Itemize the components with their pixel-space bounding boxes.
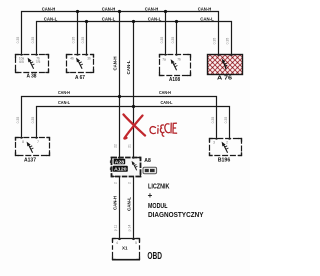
junction A108 pin2 / CAN-L [175,20,178,23]
svg-text:3: 3 [213,141,215,145]
annotation text LICZNIK + MODUL DIAGNOSTYCZNY [148,181,204,218]
svg-text:0.35: 0.35 [226,38,230,45]
tab marks on cluster left side [110,161,112,164]
svg-text:A137: A137 [24,158,36,164]
svg-text:X1: X1 [122,246,128,251]
svg-text:A8: A8 [144,158,151,164]
connector X1 (OBD socket) [112,238,140,259]
svg-text:7a: 7a [162,58,166,62]
svg-text:A 76: A 76 [217,76,232,82]
wire CAN-H mid bus [22,97,217,139]
svg-text:4: 4 [116,241,118,245]
svg-text:CAN-H: CAN-H [198,7,212,13]
svg-text:0.35: 0.35 [16,117,20,124]
cluster control-unit symbol [132,161,138,170]
svg-text:8: 8 [22,140,24,144]
svg-text:CAN-L: CAN-L [161,100,173,106]
svg-text:CAN-L: CAN-L [58,100,70,106]
svg-text:0.35: 0.35 [31,117,35,124]
svg-text:0.35: 0.35 [211,117,215,124]
svg-text:2: 2 [114,182,118,184]
svg-text:p 11: p 11 [114,225,118,231]
svg-text:CAN-H: CAN-H [112,195,117,210]
wire CAN-H trunk to cluster [119,12,121,158]
svg-text:CAN-L: CAN-L [126,197,131,211]
junction A67 pin1 / CAN-H [76,10,79,13]
red cut X mark stroke 2 [124,116,142,139]
junction trunk / CAN-L mid bus [132,105,135,108]
svg-text:0.35: 0.35 [16,37,20,44]
svg-text:0.35: 0.35 [213,38,217,45]
svg-text:0.35: 0.35 [224,117,228,124]
module B196 [210,138,242,164]
module A137 [16,137,50,164]
svg-text:A120: A120 [114,167,127,172]
svg-text:p 14: p 14 [128,225,132,232]
wire CAN-H top bus [22,12,219,56]
svg-text:3b: 3b [87,57,91,61]
svg-text:CAN-H: CAN-H [113,56,118,71]
svg-text:2: 2 [128,182,132,184]
svg-text:+: + [148,191,153,200]
module A67 [67,54,94,81]
svg-text:CAN-L: CAN-L [200,16,214,22]
svg-text:CAN-H: CAN-H [102,7,116,13]
connector chip icon beside cluster [143,167,157,173]
wire cluster to OBD CAN-H [119,177,121,239]
wire CAN-L mid bus [37,107,230,139]
svg-text:CAN-H: CAN-H [159,90,171,96]
junction A67 pin2 / CAN-L [85,20,88,23]
svg-text:6/5: 6/5 [19,60,24,64]
svg-text:DIAGNOSTYCZNY: DIAGNOSTYCZNY [148,210,204,219]
svg-text:7: 7 [37,140,39,144]
svg-text:0.35: 0.35 [72,37,76,44]
svg-text:A28: A28 [115,159,125,164]
handwritten annotation CIECIE (red) [150,123,177,136]
module A38 [16,54,49,80]
svg-text:21: 21 [128,144,132,148]
wire A108 pin2 drop [176,22,178,55]
svg-text:LICZNIK: LICZNIK [148,181,170,190]
svg-text:CAN-H: CAN-H [42,7,56,13]
svg-text:CAN-L: CAN-L [148,16,162,22]
svg-text:CAN-L: CAN-L [102,16,116,22]
wire A67 pin1 drop [77,12,79,55]
wire A67 pin2 drop [86,22,88,55]
wire CAN-L trunk to cluster [133,22,135,158]
svg-text:B196: B196 [218,158,231,164]
svg-text:A 38: A 38 [27,74,37,80]
svg-text:A 67: A 67 [75,75,85,81]
svg-text:CAN-L: CAN-L [126,60,131,74]
junction trunk / CAN-H mid bus [118,95,121,98]
svg-text:MODUŁ: MODUŁ [148,201,168,210]
svg-text:CAN-H: CAN-H [58,90,70,96]
svg-text:OBD: OBD [147,251,162,262]
svg-text:CAN-H: CAN-H [145,7,159,13]
module A76 (highlighted, crosshatched) [208,54,243,81]
svg-text:7b: 7b [177,58,181,62]
svg-text:0.35: 0.35 [31,37,35,44]
wire CAN-L top bus [37,22,232,56]
svg-text:A108: A108 [169,77,180,83]
designator chip A28 [114,159,126,165]
junction trunk / CAN-L [132,20,135,23]
wire A108 pin1 drop [165,12,167,55]
svg-text:0.35: 0.35 [171,37,175,44]
designator chip A120 [113,166,128,172]
svg-text:0.35: 0.35 [160,37,164,44]
junction trunk / CAN-H [118,10,121,13]
svg-text:2: 2 [226,141,228,145]
svg-text:0.35: 0.35 [81,37,85,44]
wire cluster to OBD CAN-L [133,177,135,239]
svg-text:CAN-L: CAN-L [44,16,58,22]
junction A108 pin1 / CAN-H [164,10,167,13]
svg-text:5: 5 [135,241,137,245]
red cut X mark stroke 1 [124,115,146,136]
svg-text:22: 22 [114,144,118,148]
svg-text:4b: 4b [70,57,74,61]
instrument cluster module A8 (with A28 / A120 sub-units) [110,157,141,177]
svg-text:7/5: 7/5 [36,60,41,64]
module A108 [160,54,191,83]
